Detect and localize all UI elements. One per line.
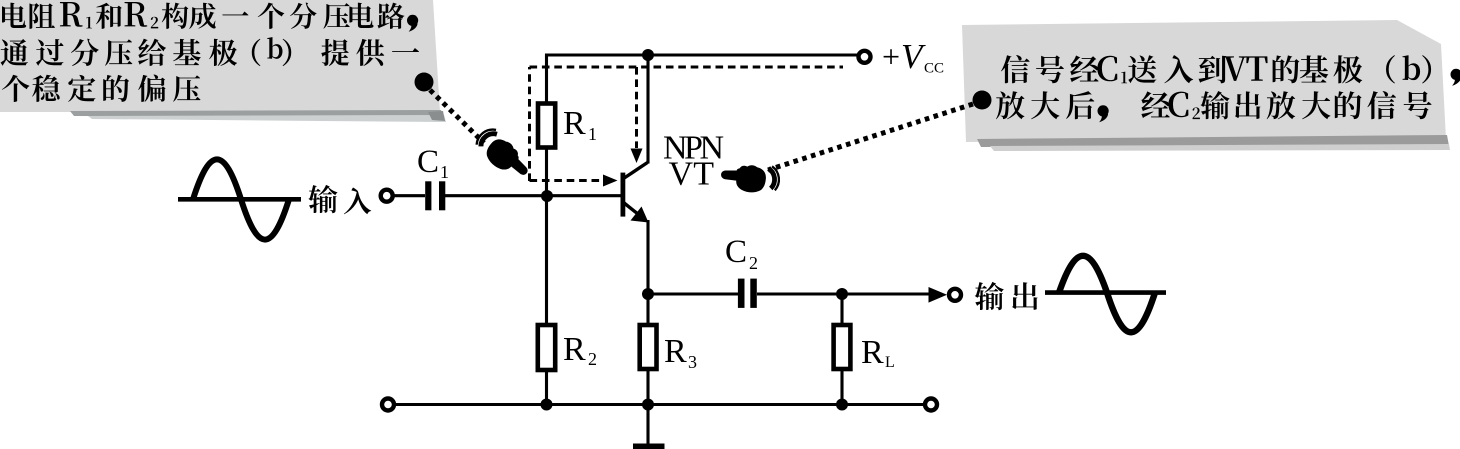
svg-text:R: R [563, 331, 586, 368]
resistor RL [834, 325, 851, 369]
svg-text:C: C [417, 144, 439, 180]
output sine wave symbol [1045, 290, 1166, 295]
wire R3 to ground rail [646, 369, 649, 405]
dashed current path: top leg [530, 66, 844, 69]
wire R2 to ground rail [545, 370, 548, 405]
svg-text:R: R [861, 334, 884, 371]
svg-text:C: C [725, 234, 747, 270]
wire C1 to base node [445, 194, 621, 197]
dotted leader from left box to hand [430, 90, 484, 143]
svg-text:R: R [563, 105, 586, 142]
ground rail right terminal [925, 399, 937, 411]
dashed current path: base leg [530, 179, 604, 182]
svg-text:2: 2 [588, 349, 597, 369]
resistor R3 [640, 325, 657, 369]
callout left text line 1 [2, 3, 26, 28]
dotted leader from right box to hand [768, 104, 973, 170]
callout box: voltage divider note (left) [0, 0, 440, 112]
dashed current path: collector leg [635, 67, 638, 148]
node: base/divider junction [541, 190, 553, 202]
node: R3/ground on ground rail [642, 399, 654, 411]
ground rail left terminal [382, 399, 394, 411]
wire node down to R2 [545, 196, 548, 325]
svg-text:VT: VT [669, 156, 715, 193]
svg-text:L: L [885, 354, 895, 371]
hand pointer at C1/base node [472, 125, 535, 186]
wire emitter node to C2 [648, 292, 738, 295]
resistor R1 [538, 104, 555, 148]
svg-text:V: V [901, 37, 926, 76]
transistor VT collector lead [624, 163, 648, 179]
node: R2 on ground rail [541, 399, 553, 411]
dashed arrow into base [603, 175, 618, 187]
svg-text:+: + [882, 39, 900, 75]
label 输出 (output) [975, 282, 1004, 310]
ground symbol [646, 405, 649, 445]
svg-text:CC: CC [924, 61, 944, 77]
capacitor C2 [738, 279, 745, 308]
callout left text line 2 [1, 39, 28, 66]
ground rail wire [394, 403, 925, 406]
svg-text:1: 1 [588, 124, 597, 144]
hand pointer at VT [720, 163, 780, 195]
callout box left shadow edge [70, 110, 444, 117]
wire top rail to +Vcc [545, 53, 858, 56]
wire R1 to top rail [545, 54, 548, 104]
output arrow [929, 287, 948, 303]
leader bullet on left box [415, 73, 434, 92]
callout box right shadow edge [977, 135, 1449, 147]
wire C2 to RL node [757, 292, 842, 295]
wire node up to R1 [545, 147, 548, 196]
wire RL to ground rail [840, 369, 843, 405]
input sine wave symbol [178, 197, 301, 202]
svg-text:3: 3 [688, 352, 697, 372]
callout box: signal path note (right) [962, 20, 1446, 142]
svg-text:R: R [664, 333, 687, 370]
dashed current path: left leg [528, 67, 531, 181]
label 输入 (input) [308, 185, 337, 213]
node: RL on ground rail [836, 399, 848, 411]
dashed arrow toward collector [631, 149, 643, 164]
svg-text:1: 1 [440, 162, 449, 182]
node: collector/rail junction [642, 49, 654, 61]
callout right text line 1 [1001, 55, 1030, 83]
resistor R2 [538, 325, 555, 370]
callout left text line 3 [2, 75, 29, 102]
wire RL node to output [842, 292, 931, 295]
leader bullet on right box [973, 91, 992, 110]
input terminal circle [381, 190, 393, 202]
output terminal circle [949, 289, 961, 301]
transistor VT base bar [621, 173, 626, 217]
callout right text line 2 [996, 91, 1025, 119]
wire RL node down to RL [840, 294, 843, 325]
transistor VT emitter lead with arrow [624, 203, 642, 217]
terminal +Vcc circle [859, 51, 871, 63]
capacitor C1 [425, 181, 431, 210]
node: emitter/C2 junction [642, 288, 654, 300]
svg-text:2: 2 [749, 253, 758, 273]
wire emitter node down to R3 [646, 294, 649, 325]
wire input terminal to C1 [393, 194, 425, 197]
node: RL/output junction [836, 288, 848, 300]
